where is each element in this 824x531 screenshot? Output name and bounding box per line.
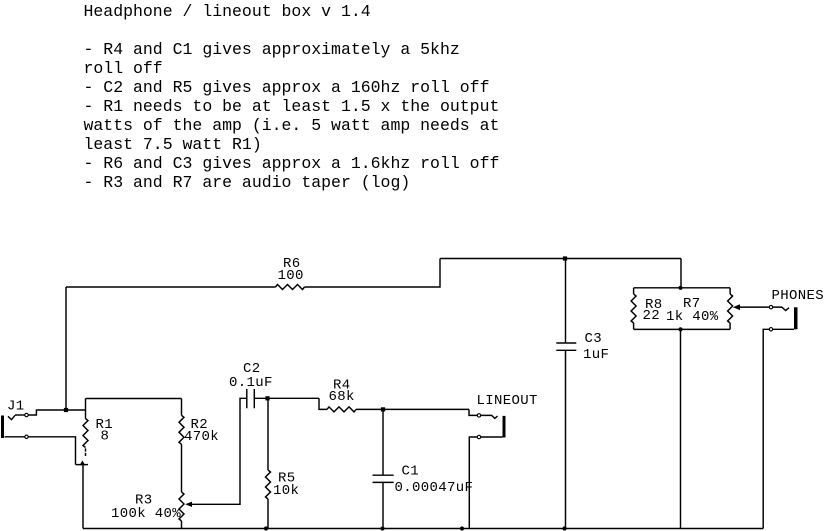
wire top rail [440, 258, 681, 260]
LINEOUT tip switch check [481, 415, 498, 418]
wire R7 bottom stub [729, 323, 731, 329]
wire R3 wiper to C2 [191, 398, 247, 504]
wire C3 top lead [565, 259, 567, 344]
potentiometer R7 [728, 294, 733, 323]
wire R6 right and riser [305, 259, 441, 288]
svg-text:0.1uF: 0.1uF [229, 375, 273, 391]
wire R5 bottom to bus [267, 499, 269, 529]
resistor R1 [83, 419, 88, 448]
svg-text:22: 22 [643, 308, 661, 324]
svg-text:1k 40%: 1k 40% [666, 309, 719, 325]
wire R8 top stub [633, 288, 635, 294]
junction dot R7 box bottom [678, 327, 682, 331]
wire box bottom to ground bus [680, 329, 682, 528]
R1 bottom arrow [80, 460, 86, 465]
wire J1 sleeve to corner [28, 437, 75, 465]
svg-text:8: 8 [101, 429, 110, 445]
wire R8/R7 box bottom edge [634, 328, 731, 330]
jack J1 [1, 416, 4, 439]
wire R7 top stub [729, 288, 731, 294]
wire lineout tip step [469, 409, 477, 415]
J1 tip contact circle [25, 413, 28, 416]
wire LINEOUT sleeve [481, 436, 503, 438]
capacitor C2 [247, 389, 255, 408]
wire R6 left column [65, 287, 67, 410]
wire C2 to R4 step [319, 398, 327, 409]
R3 wiper arrow [185, 502, 192, 507]
jack LINEOUT [503, 416, 506, 438]
wire J1 tip to node [28, 410, 85, 415]
wire input node top edge [86, 398, 182, 400]
wire C3 bottom lead [565, 350, 567, 528]
J1 sleeve contact circle [25, 435, 28, 438]
junction dot (R6 left / J1 tip) [64, 408, 68, 412]
wire R4 right to lineout [356, 408, 469, 410]
wire rail to R7 box [680, 259, 682, 288]
svg-text:68k: 68k [329, 389, 355, 405]
wire R2 to R3 [181, 444, 183, 492]
svg-text:1uF: 1uF [583, 347, 609, 363]
svg-text:C1: C1 [402, 464, 420, 480]
wire J1 sleeve from bar [5, 436, 25, 438]
svg-text:C3: C3 [585, 331, 603, 347]
wire C1 top lead [382, 409, 384, 475]
junction dot bus R5 [264, 526, 268, 530]
svg-text:10k: 10k [273, 483, 299, 499]
J1 tip switch check [8, 415, 15, 419]
wire PHONES sleeve [773, 328, 794, 330]
wire R2 top lead [181, 399, 183, 416]
wire R8 bottom stub [633, 323, 635, 329]
junction dot C1 top [381, 407, 385, 411]
wire to ground bus left [82, 465, 84, 529]
wire C1 bottom to bus [382, 482, 384, 528]
wire R1 top lead [85, 399, 87, 419]
svg-text:0.00047uF: 0.00047uF [395, 480, 474, 496]
potentiometer R3 [179, 492, 184, 521]
resistor R5 [266, 470, 271, 499]
svg-text:100k 40%: 100k 40% [111, 506, 181, 522]
wire PHONES sleeve to ground bus [763, 329, 769, 528]
LINEOUT tip contact circle [477, 414, 480, 417]
junction dot bus C3 [562, 526, 566, 530]
resistor R8 [631, 294, 636, 323]
svg-text:470k: 470k [184, 429, 219, 445]
wire R6 left [66, 286, 276, 288]
LINEOUT sleeve contact circle [477, 435, 480, 438]
wire C2 right [254, 397, 319, 399]
PHONES tip contact circle [769, 305, 772, 308]
resistor R2 [179, 415, 184, 444]
svg-text:J1: J1 [7, 399, 25, 415]
wire J1 sleeve horizontal under arrow [76, 464, 89, 466]
PHONES tip switch check [773, 307, 789, 310]
capacitor C3 [556, 343, 576, 350]
capacitor C1 [373, 475, 394, 482]
wire LINEOUT sleeve to bus [469, 437, 477, 529]
wire [15, 414, 25, 416]
resistor R4 [327, 407, 356, 412]
junction dot R7 box top [678, 286, 682, 290]
junction dot C3 top [563, 256, 567, 260]
R7 wiper arrow [733, 304, 740, 310]
junction dot bus lineout [460, 526, 464, 530]
wire ground bus [83, 528, 763, 530]
svg-text:PHONES: PHONES [772, 288, 824, 304]
junction dot C2/R5 [265, 396, 269, 400]
wire R3 bottom to bus [181, 521, 183, 529]
wire R5 top lead [267, 398, 269, 470]
wire R8/R7 box top edge [634, 287, 731, 289]
jack PHONES [794, 307, 798, 329]
junction dot bus C1 [380, 526, 384, 530]
wire wiper to phones tip [739, 306, 769, 308]
PHONES sleeve contact circle [769, 328, 772, 331]
resistor R6 [276, 285, 305, 290]
svg-text:LINEOUT: LINEOUT [477, 393, 538, 409]
R1 dashed bottom lead [85, 448, 87, 456]
svg-text:100: 100 [278, 268, 304, 284]
